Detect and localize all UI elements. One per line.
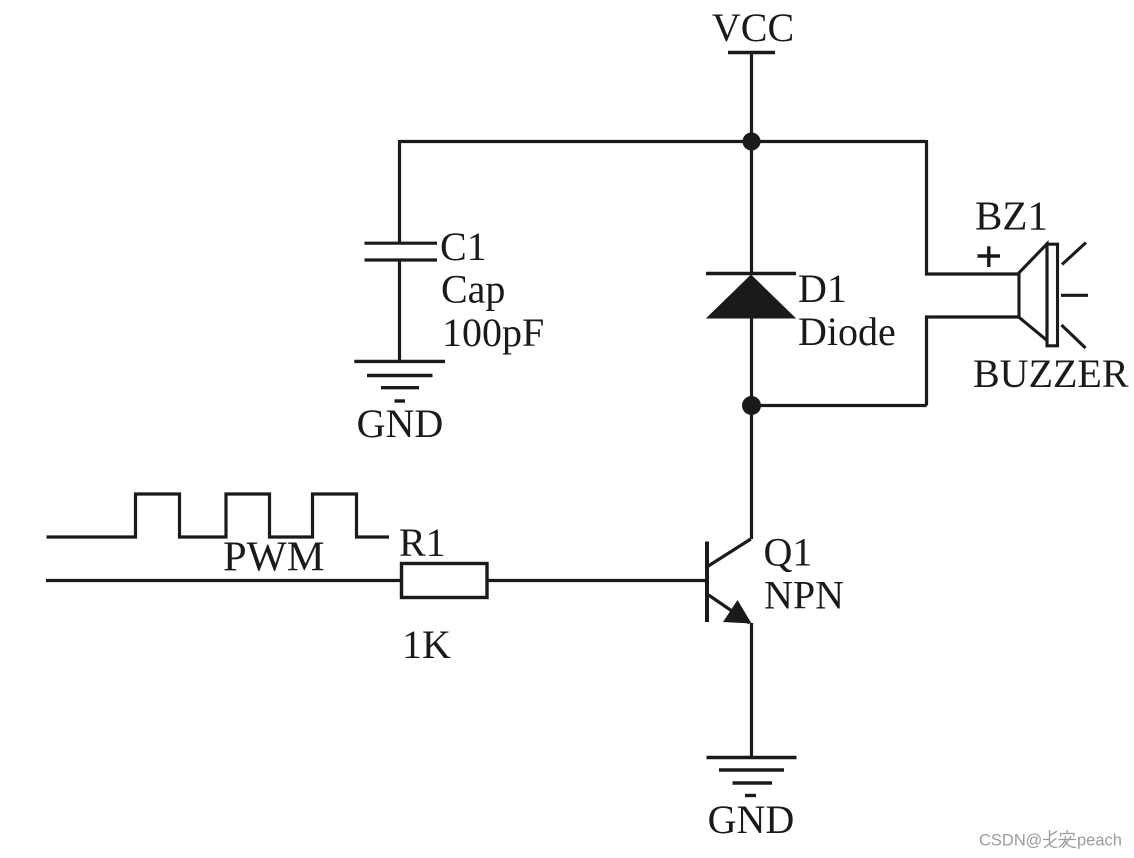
VCC power bar symbol	[728, 51, 775, 55]
svg-text:peach: peach	[1077, 832, 1122, 850]
svg-text:C1: C1	[440, 224, 487, 269]
wire node to collector	[750, 406, 753, 540]
svg-text:GND: GND	[708, 797, 795, 842]
svg-text:R1: R1	[399, 520, 446, 565]
svg-text:Cap: Cap	[441, 267, 505, 312]
resistor R1	[402, 564, 488, 598]
svg-text:VCC: VCC	[712, 5, 794, 50]
junction dot collector node	[742, 396, 761, 415]
svg-text:D1: D1	[798, 266, 847, 311]
wire VCC vertical	[750, 53, 753, 142]
svg-text:BZ1: BZ1	[975, 192, 1048, 238]
wire diode anode to node	[750, 316, 753, 406]
svg-text:@: @	[1026, 832, 1043, 850]
watermark CJK glyph 长 (stroke approximation)	[1044, 831, 1057, 848]
diode D1	[706, 274, 796, 319]
wire emitter to ground	[750, 623, 753, 758]
wire rail to diode cathode	[750, 142, 753, 275]
wire node to buzzer branch	[752, 404, 927, 407]
transistor Q1	[707, 539, 752, 624]
svg-text:Q1: Q1	[764, 530, 813, 575]
wire top rail to C1	[398, 140, 401, 245]
ground symbol GND (left)	[354, 361, 445, 401]
junction dot VCC rail	[743, 133, 761, 151]
svg-text:1K: 1K	[402, 622, 451, 667]
svg-text:NPN: NPN	[764, 572, 844, 617]
watermark CJK glyph 安 (stroke approximation)	[1059, 831, 1076, 848]
label + polarity	[978, 246, 1001, 267]
wire buzzer positive terminal	[927, 140, 1020, 274]
wire buzzer negative terminal	[927, 317, 1020, 406]
ground symbol GND (bottom)	[707, 758, 797, 796]
PWM waveform	[47, 494, 390, 537]
svg-text:Diode: Diode	[798, 309, 896, 354]
svg-text:PWM: PWM	[223, 534, 325, 581]
svg-text:CSDN: CSDN	[979, 832, 1026, 850]
capacitor C1	[365, 243, 438, 260]
wire R1 to base	[488, 579, 707, 582]
svg-text:BUZZER: BUZZER	[973, 351, 1129, 396]
wire top rail	[400, 140, 927, 143]
svg-text:GND: GND	[357, 401, 444, 446]
wire PWM input	[46, 579, 400, 582]
wire C1 to ground	[398, 259, 401, 361]
svg-text:100pF: 100pF	[442, 310, 544, 355]
buzzer BZ1 symbol	[1019, 243, 1088, 349]
